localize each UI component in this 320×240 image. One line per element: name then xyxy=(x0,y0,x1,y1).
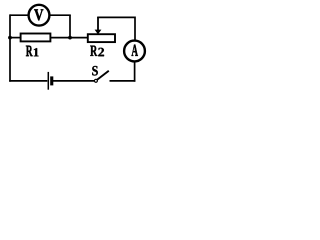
battery long thin plate xyxy=(47,72,49,90)
switch S blade xyxy=(97,71,109,80)
wire bottom left segment xyxy=(9,80,47,82)
wire battery to switch xyxy=(53,80,94,82)
rheostat slider arrow xyxy=(95,17,102,34)
wire ammeter bottom vertical xyxy=(134,61,136,82)
ammeter A xyxy=(124,41,145,62)
node junction on left wire xyxy=(8,36,12,40)
wire voltmeter right to corner xyxy=(49,14,71,16)
node junction voltmeter tap xyxy=(68,36,72,40)
wire R1 to R2 xyxy=(50,37,88,39)
switch pivot terminal xyxy=(94,79,97,82)
label S xyxy=(92,66,97,75)
wire slider bar to ammeter top xyxy=(97,17,135,40)
wire node to R1 xyxy=(10,37,21,39)
battery short thick plate xyxy=(50,76,53,85)
wire top-left horizontal xyxy=(10,14,29,16)
wire left vertical xyxy=(9,14,11,81)
voltmeter V xyxy=(29,5,50,26)
label R2 xyxy=(90,46,104,57)
resistor R1 xyxy=(21,34,51,42)
rheostat R2 xyxy=(88,34,115,42)
wire bottom right segment xyxy=(110,80,136,82)
wire voltmeter branch vertical xyxy=(69,15,71,37)
label R1 xyxy=(26,46,39,57)
